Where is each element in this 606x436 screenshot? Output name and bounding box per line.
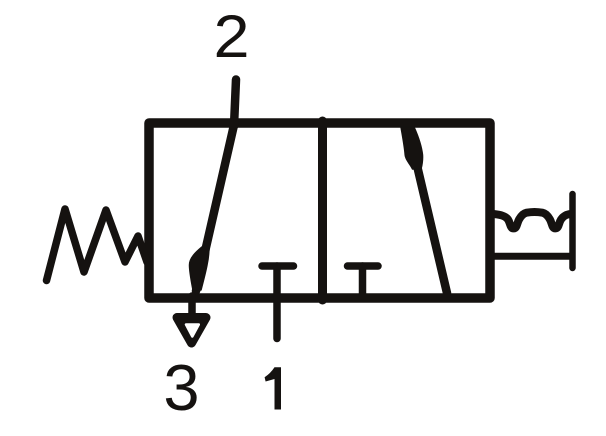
left position flow path 2-3 (diagonal line) [196, 125, 234, 291]
port 1 connection line (stem through body) [273, 266, 281, 339]
detent actuator end bar [569, 194, 576, 268]
port 3 blocked symbol in right position (T) [348, 262, 379, 270]
port 3 exhaust triangle [177, 318, 206, 344]
port 3 exhaust triangle inner hole [186, 325, 199, 337]
svg-text:2: 2 [213, 3, 249, 70]
detent actuator notched (wavy) line [492, 212, 571, 228]
position divider line [318, 121, 327, 300]
return spring (left actuator) [47, 209, 148, 281]
port 2 connection line [234, 80, 236, 127]
port 3 stub line [188, 296, 196, 315]
port 1 label [265, 367, 281, 409]
left position arrowhead (points down to port 3) [190, 246, 210, 290]
svg-text:3: 3 [163, 351, 199, 424]
valve body outline (two-position box) [149, 123, 490, 298]
detent actuator bottom line [492, 253, 571, 260]
right position arrowhead (points up to port 2) [401, 127, 423, 169]
right position flow path 1-2 (diagonal line) [407, 123, 447, 293]
port 1 blocked symbol in left position (T) [262, 262, 294, 270]
